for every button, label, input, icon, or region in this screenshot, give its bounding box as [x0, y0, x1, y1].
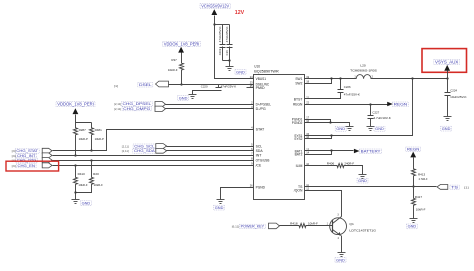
svg-text:/QON: /QON [294, 189, 303, 193]
capacitor C224 10uF on VSYS [447, 79, 449, 93]
svg-text:L20: L20 [360, 63, 366, 67]
svg-text:CHG_SDA: CHG_SDA [134, 149, 156, 153]
svg-text:OTG/USB: OTG/USB [256, 158, 271, 162]
svg-text:[2,11]: [2,11] [114, 102, 121, 106]
ground for pulldowns [72, 199, 80, 201]
resistor R481 10k pull-up [90, 123, 94, 142]
wire D+/PGSEL [166, 104, 254, 106]
svg-text:/CE: /CE [256, 164, 262, 168]
svg-text:C203: C203 [218, 48, 222, 55]
svg-text:GND: GND [82, 202, 91, 206]
svg-text:R413: R413 [418, 172, 426, 176]
svg-text:PGND: PGND [256, 185, 266, 189]
svg-text:10kR-F: 10kR-F [416, 208, 426, 212]
junction VSYS cap [446, 77, 448, 79]
wire DSEL to pin 23 [169, 84, 254, 86]
svg-text:CHG_SCL: CHG_SCL [134, 144, 154, 148]
svg-text:R418: R418 [290, 221, 298, 225]
wire base with resistor R418 [280, 225, 299, 227]
wire R20 to R410 column [76, 187, 92, 193]
resistor R20 10k pull-down [91, 161, 93, 177]
svg-text:47nF/25V-K: 47nF/25V-K [218, 26, 222, 42]
svg-text:10kR-F: 10kR-F [168, 68, 178, 72]
wire VSYS row to far right [371, 78, 448, 80]
svg-text:[4]: [4] [12, 164, 16, 168]
svg-text:REGN: REGN [407, 147, 420, 151]
svg-text:D-/PG: D-/PG [256, 107, 267, 111]
resistor R413 2.7k [412, 168, 416, 179]
svg-text:[2,11]: [2,11] [122, 144, 129, 148]
svg-text:BTST: BTST [294, 97, 303, 101]
svg-text:PGND2: PGND2 [292, 121, 303, 125]
svg-text:4.7uF/10V-K: 4.7uF/10V-K [373, 116, 390, 120]
port TS [437, 185, 448, 190]
wire SW1 to inductor [305, 78, 357, 80]
wire INT [53, 155, 254, 157]
junction R20 on OTG wire [90, 159, 92, 161]
svg-text:[4]: [4] [12, 149, 16, 153]
wire OTG/USB [53, 160, 254, 162]
resistor R410 10k pull-down [75, 166, 77, 177]
svg-text:240R-F: 240R-F [344, 161, 354, 165]
capacitor C203 [222, 25, 224, 45]
svg-text:INT: INT [256, 154, 262, 158]
svg-text:2.7kR-F: 2.7kR-F [419, 177, 428, 181]
svg-text:STAT: STAT [256, 128, 265, 132]
svg-text:VCHG5V9V12V: VCHG5V9V12V [201, 4, 229, 9]
wire ILIM with resistor R406 [305, 165, 337, 167]
wire VBUS vertical from flag to IC row [215, 16, 254, 79]
svg-text:C227: C227 [372, 111, 379, 115]
ground for Q1 [338, 252, 346, 254]
ground for C224 [444, 116, 452, 118]
svg-text:[4]: [4] [12, 154, 16, 158]
capacitor C26 [229, 25, 231, 45]
ground for R417 [410, 218, 418, 220]
svg-text:GND: GND [336, 258, 345, 262]
svg-text:[6,11]: [6,11] [232, 225, 240, 229]
wire TS [305, 186, 437, 188]
wire flag to pullups [76, 115, 92, 123]
svg-text:10kR-F: 10kR-F [308, 221, 318, 225]
wire PGND to ground [221, 188, 254, 200]
svg-text:GND: GND [336, 127, 345, 131]
junction R410 on CE wire [74, 164, 76, 166]
svg-text:DSEL: DSEL [139, 83, 152, 87]
junction R37 to DSEL wire [180, 83, 182, 85]
svg-text:VDDOK_1V8_PERI: VDDOK_1V8_PERI [164, 41, 200, 46]
net arrow REGN [387, 102, 393, 107]
red highlight box CHG_EN [6, 161, 59, 171]
wire PGND1/PGND2 to ground [305, 120, 331, 123]
svg-text:CHG_STAT: CHG_STAT [16, 149, 38, 153]
svg-text:POWER_KEY: POWER_KEY [241, 225, 265, 229]
svg-text:[1]: [1] [114, 84, 118, 88]
op-amp U16 BQ25890TWR charger IC body [254, 75, 305, 200]
svg-text:R481: R481 [95, 128, 103, 132]
svg-text:R410: R410 [78, 172, 86, 176]
svg-text:REGN: REGN [394, 102, 408, 106]
capacitor C220 47nF on DSEL [218, 85, 220, 88]
svg-text:[2,11]: [2,11] [122, 149, 129, 153]
wire SW2 join [305, 79, 332, 84]
svg-text:CHG_DMPG: CHG_DMPG [123, 107, 150, 111]
wire BAT1/BAT2 to battery [305, 150, 354, 152]
svg-text:SW2: SW2 [295, 82, 302, 86]
svg-text:SDA: SDA [256, 149, 264, 153]
svg-text:R37: R37 [171, 58, 177, 62]
wire STAT with jog up to pin 4 [53, 130, 254, 151]
svg-text:C224: C224 [450, 88, 457, 92]
svg-text:[2,11]: [2,11] [114, 107, 121, 111]
wire D-/PG [166, 108, 254, 110]
capacitor C226 bootstrap 47nF [340, 79, 342, 90]
svg-text:CHG_INT: CHG_INT [17, 154, 35, 158]
svg-text:C226: C226 [344, 85, 351, 89]
wire Q1 emitter to ground [341, 236, 343, 253]
svg-text:U16: U16 [254, 64, 260, 68]
svg-text:GND: GND [179, 96, 188, 100]
svg-text:R287: R287 [79, 128, 87, 132]
ground for input caps [226, 66, 234, 68]
power flag VCHG_5V9V12V [211, 9, 217, 15]
wire REGN [305, 104, 388, 106]
junction TS divider [412, 185, 414, 187]
svg-text:C26: C26 [225, 50, 229, 56]
svg-text:R20: R20 [93, 172, 99, 176]
wire to input caps [215, 24, 230, 26]
svg-text:GND: GND [408, 225, 417, 229]
svg-text:VBUS1: VBUS1 [256, 77, 267, 81]
svg-text:VSYS_AUX: VSYS_AUX [435, 59, 459, 64]
svg-text:10kR-F: 10kR-F [94, 183, 103, 187]
svg-text:D+/PGSEL: D+/PGSEL [256, 103, 272, 107]
red highlight box VSYS_AUX [422, 49, 467, 73]
svg-text:ILIM: ILIM [296, 164, 303, 168]
svg-text:SYS2: SYS2 [294, 137, 302, 141]
svg-text:VDDOK_1V8_PERI: VDDOK_1V8_PERI [57, 102, 94, 107]
svg-text:PMID: PMID [256, 86, 266, 90]
capacitor C227 4.7uF on REGN [370, 105, 372, 116]
svg-text:LDTC143TET1G: LDTC143TET1G [349, 228, 376, 232]
svg-text:Q1: Q1 [349, 222, 354, 226]
junction at cap branch [213, 23, 215, 25]
svg-text:47nF/25V-K: 47nF/25V-K [344, 92, 360, 96]
svg-text:10kR-P: 10kR-P [95, 137, 104, 141]
svg-text:TCM0906G-1R0S: TCM0906G-1R0S [350, 69, 377, 73]
svg-text:BQ25890TWR: BQ25890TWR [254, 70, 279, 74]
wire /QON to Q1 collector [305, 191, 342, 215]
wire SCL [167, 146, 254, 148]
svg-text:SCL: SCL [256, 144, 263, 148]
svg-text:BAT2: BAT2 [295, 153, 303, 157]
wire SDA [167, 150, 254, 152]
svg-text:GND: GND [215, 206, 224, 210]
svg-text:47nF/25V-K: 47nF/25V-K [221, 84, 237, 88]
svg-text:CHG_EN: CHG_EN [18, 164, 36, 168]
svg-text:SW1: SW1 [295, 77, 302, 81]
svg-text:C220: C220 [201, 84, 208, 88]
junction SYS riser [411, 77, 413, 79]
svg-text:R417: R417 [415, 195, 423, 199]
transistor Q1 LDTC143TET1G [330, 218, 347, 235]
svg-text:BATTERY: BATTERY [361, 149, 382, 153]
svg-text:47nF/25V-K: 47nF/25V-K [225, 26, 229, 42]
svg-text:CHG_DPSEL: CHG_DPSEL [123, 102, 152, 106]
ground for PGND1/2 [346, 126, 354, 128]
svg-text:R406: R406 [327, 161, 335, 165]
svg-text:10uF/25V-K: 10uF/25V-K [450, 95, 466, 99]
svg-text:REGN: REGN [293, 102, 303, 106]
svg-text:[1]: [1] [464, 185, 469, 189]
resistor R37 10k [181, 53, 183, 63]
svg-text:12V: 12V [235, 10, 245, 16]
net arrow BATTERY [354, 149, 360, 154]
svg-text:GND: GND [236, 70, 245, 74]
wire SYS1/SYS2 riser to VSYS [305, 79, 413, 136]
svg-text:GND: GND [442, 127, 451, 131]
wire CE [53, 165, 254, 167]
ground for C227 [367, 126, 375, 128]
svg-text:GND: GND [358, 179, 367, 183]
junction bootstrap cap [339, 77, 341, 79]
ground for PGND [217, 199, 225, 201]
svg-text:10kR-F: 10kR-F [78, 183, 87, 187]
ground for C220 [189, 94, 197, 96]
resistor R287 10k pull-up [74, 123, 78, 142]
ground for R406 [359, 174, 367, 176]
svg-text:GND: GND [375, 127, 384, 131]
svg-text:10kR-P: 10kR-P [79, 137, 88, 141]
wire cap bottoms [223, 60, 230, 62]
